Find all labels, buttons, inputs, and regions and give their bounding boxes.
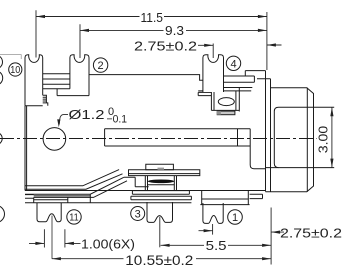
contact stack between plate and pin 2	[43, 74, 70, 89]
label circle 4	[226, 56, 240, 70]
pin 3 (fork, bottom middle)	[147, 202, 173, 222]
pin 1 (fork, bottom right)	[203, 203, 223, 223]
svg-text:2.75±0.2: 2.75±0.2	[280, 226, 342, 241]
arm 2 flat + step down	[124, 177, 149, 187]
sleeve left face	[274, 107, 278, 167]
switch contact box	[145, 176, 176, 191]
svg-text:11.5: 11.5	[141, 10, 164, 25]
gray construction line top-left	[0, 55, 21, 60]
leader for hole diameter	[59, 115, 68, 125]
dimension 5.5	[160, 217, 271, 248]
left body lower lines	[25, 195, 90, 199]
body left edge	[25, 106, 43, 191]
dimension 2.75±0.2 (top)	[198, 44, 282, 59]
tube (plug bore) through body	[105, 129, 251, 146]
chamber wall right of tube	[250, 129, 266, 169]
svg-text:5.5: 5.5	[206, 238, 227, 253]
svg-text:10: 10	[10, 65, 20, 76]
eyelet box under pin 4	[211, 88, 239, 112]
eyelet ellipse	[218, 98, 234, 106]
bushing outline	[266, 88, 314, 192]
contact dome (dark band)	[148, 180, 174, 184]
seat left step	[198, 92, 211, 95]
hatched step box on plate bottom right	[43, 95, 48, 106]
bottom plate long edge	[25, 202, 191, 204]
svg-text:9.3: 9.3	[165, 23, 184, 38]
switch block on slab	[146, 164, 174, 170]
bottom contact arm tails (left)	[25, 170, 127, 203]
svg-text:11: 11	[69, 212, 79, 224]
dimension 1.00(6X)	[29, 216, 81, 259]
center line (dash-dot axis)	[0, 138, 317, 140]
svg-text:−0.1: −0.1	[107, 114, 128, 126]
svg-text:2.75±0.2: 2.75±0.2	[134, 38, 197, 53]
label circle 11	[67, 210, 81, 224]
left-edge partial label circle arcs	[0, 55, 3, 69]
svg-text:2: 2	[98, 60, 104, 72]
pin 2 (fork, top)	[70, 55, 89, 96]
pin 11 (fork, bottom left)	[37, 203, 61, 222]
dimension 2.75±0.2 (bottom right)	[199, 224, 285, 235]
washer flange right of body	[270, 79, 272, 192]
dimension 10.55±0.2	[52, 208, 271, 265]
middle base plate 2	[131, 196, 192, 199]
eyelet gray cap	[217, 111, 235, 115]
dimension 9.3	[80, 24, 267, 58]
pin 4 seat plate right	[223, 76, 254, 82]
top right tab	[245, 71, 265, 76]
pin 4 seat plate 2	[198, 88, 252, 91]
sleeve top edge / 3.00 extension	[279, 106, 335, 108]
label circle 3	[131, 207, 145, 221]
right corner step	[250, 194, 263, 198]
svg-text:3: 3	[135, 208, 141, 220]
svg-text:Ø1.2: Ø1.2	[69, 107, 105, 122]
body top edge	[89, 75, 271, 81]
label circle 2	[93, 58, 107, 72]
body left shield plate with fork top	[25, 55, 43, 106]
svg-text:1: 1	[232, 212, 238, 224]
label circle 1	[228, 210, 243, 225]
platform slab	[129, 170, 200, 176]
svg-text:4: 4	[230, 58, 236, 70]
mounting hole circle	[43, 128, 66, 151]
right base plate	[200, 191, 249, 205]
body right edge	[265, 71, 267, 192]
svg-text:3.00: 3.00	[316, 126, 331, 154]
dimension 3.00 (right, vertical)	[331, 107, 333, 167]
body bottom edge	[25, 190, 266, 192]
svg-text:10.55±0.2: 10.55±0.2	[125, 253, 193, 268]
svg-text:1.00(6X): 1.00(6X)	[81, 237, 135, 252]
left base strip	[34, 197, 68, 202]
label circle 10	[9, 63, 22, 76]
middle base plate 1	[132, 191, 189, 195]
bushing inner face line	[306, 88, 308, 192]
dimension 11.5	[36, 10, 267, 70]
pin 4 (fork, top right)	[203, 55, 224, 92]
sleeve bottom edge / 3.00 extension	[266, 167, 334, 169]
